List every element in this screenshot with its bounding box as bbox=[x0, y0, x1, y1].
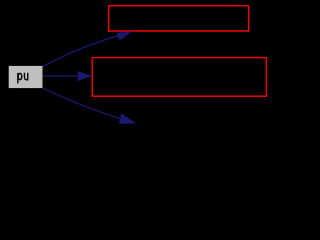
wire edge B: pu -> box2 bbox=[43, 72, 91, 81]
node pu bbox=[8, 65, 43, 88]
wire edge C: pu -> hidden node bbox=[43, 88, 135, 123]
wire edge A: pu -> box1 bbox=[43, 32, 131, 67]
node box2 (red) bbox=[92, 58, 266, 97]
node box1 (red) bbox=[109, 6, 249, 31]
